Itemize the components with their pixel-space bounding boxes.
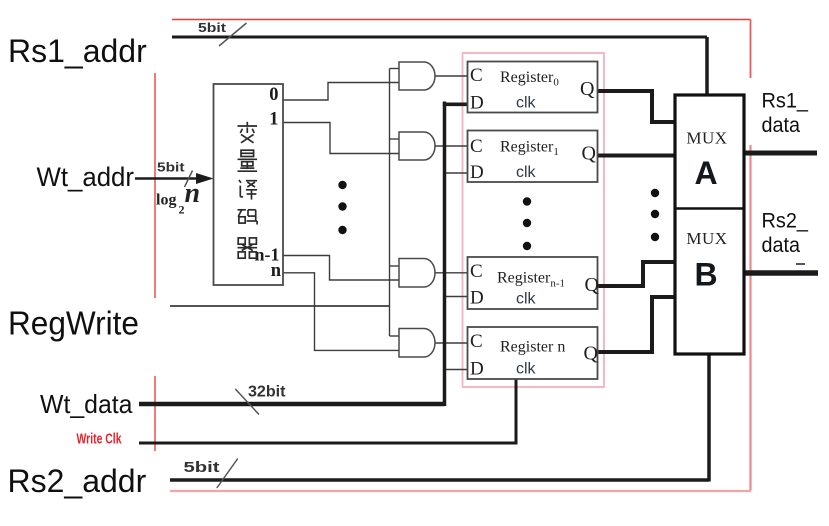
svg-text:log: log xyxy=(156,192,176,209)
svg-text:D: D xyxy=(470,359,484,380)
svg-text:C: C xyxy=(470,331,483,352)
svg-text:Register1: Register1 xyxy=(500,139,559,159)
svg-text:C: C xyxy=(470,136,483,157)
svg-text:n: n xyxy=(271,261,282,281)
svg-text:n: n xyxy=(185,178,201,209)
svg-text:MUX: MUX xyxy=(686,229,727,248)
svg-text:Rs1_: Rs1_ xyxy=(762,90,809,113)
svg-text:Write Clk: Write Clk xyxy=(77,432,123,448)
svg-text:Q: Q xyxy=(580,78,595,100)
svg-text:32bit: 32bit xyxy=(248,384,286,401)
svg-text:clk: clk xyxy=(516,95,537,112)
svg-text:Q: Q xyxy=(584,343,599,365)
svg-text:B: B xyxy=(694,257,717,293)
svg-text:Register n: Register n xyxy=(500,339,565,356)
svg-text:Register0: Register0 xyxy=(500,69,559,89)
svg-text:D: D xyxy=(470,162,484,183)
svg-text:Wt_addr: Wt_addr xyxy=(37,162,135,192)
svg-text:clk: clk xyxy=(516,164,537,181)
svg-text:MUX: MUX xyxy=(686,129,727,148)
svg-text:A: A xyxy=(694,155,717,191)
svg-text:Wt_data: Wt_data xyxy=(40,389,133,419)
svg-text:clk: clk xyxy=(516,291,537,308)
svg-text:D: D xyxy=(470,288,484,309)
svg-text:Rs2_addr: Rs2_addr xyxy=(8,463,147,499)
svg-text:1: 1 xyxy=(269,110,278,130)
svg-text:5bit: 5bit xyxy=(198,21,227,35)
svg-text:Q: Q xyxy=(582,143,597,165)
svg-text:C: C xyxy=(470,261,483,282)
svg-text:clk: clk xyxy=(516,361,537,378)
svg-text:0: 0 xyxy=(269,85,278,105)
svg-text:RegWrite: RegWrite xyxy=(8,305,139,342)
svg-text:5bit: 5bit xyxy=(157,160,185,175)
svg-text:Rs2_: Rs2_ xyxy=(762,210,809,233)
svg-text:data: data xyxy=(762,114,801,137)
svg-text:data: data xyxy=(762,234,801,257)
svg-text:Rs1_addr: Rs1_addr xyxy=(8,33,147,69)
svg-text:5bit: 5bit xyxy=(184,460,220,476)
svg-text:D: D xyxy=(470,93,484,114)
svg-text:C: C xyxy=(470,65,483,86)
svg-text:Q: Q xyxy=(585,274,600,296)
